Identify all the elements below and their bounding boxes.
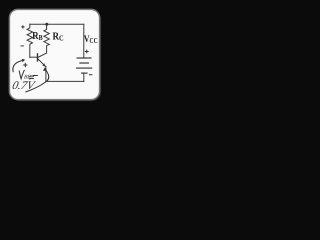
wire Vcc bottom <box>83 73 85 81</box>
annotation plus handwritten <box>24 63 27 66</box>
background <box>0 0 112 112</box>
annotation arrowhead right <box>43 67 47 71</box>
minus sign RB bottom <box>21 45 24 47</box>
minus sign battery <box>89 74 93 76</box>
wire collector diagonal <box>38 53 47 57</box>
annotation arrowhead left <box>22 59 26 62</box>
battery VCC plates <box>76 58 92 73</box>
transistor Q1 bar <box>37 53 38 61</box>
wire bottom rail <box>46 80 84 82</box>
label RC <box>53 31 64 43</box>
plus sign RB top <box>21 25 24 28</box>
battery plate long 1 <box>77 57 92 59</box>
label RB <box>32 30 43 42</box>
battery plate short 1 <box>79 62 89 64</box>
annotation text VBE: handwritten V <box>19 70 24 78</box>
wire base <box>30 56 37 58</box>
transistor Q1 emitter arrowhead <box>42 63 45 66</box>
label VCC <box>84 33 98 45</box>
annotation swoosh under text <box>26 82 46 92</box>
annotation approx sign <box>29 76 33 79</box>
white card <box>9 9 99 99</box>
plus sign battery <box>85 50 89 54</box>
node dot top of RC <box>45 23 48 26</box>
card shadow <box>11 11 102 102</box>
battery plate long 2 <box>76 67 92 69</box>
wire emitter diagonal <box>38 59 46 67</box>
annotation arrow hook to emitter <box>45 70 48 82</box>
annotation minus handwritten <box>33 75 37 77</box>
wire Vcc top <box>83 24 85 57</box>
annotation group: handwritten VBE = 0.7V <box>13 61 49 92</box>
wire emitter down <box>45 66 47 81</box>
resistor RB <box>27 24 32 57</box>
resistor RC <box>44 24 49 53</box>
wire top rail <box>30 23 84 25</box>
battery plate short 2 <box>81 72 88 74</box>
annotation arrow to base <box>13 61 22 72</box>
